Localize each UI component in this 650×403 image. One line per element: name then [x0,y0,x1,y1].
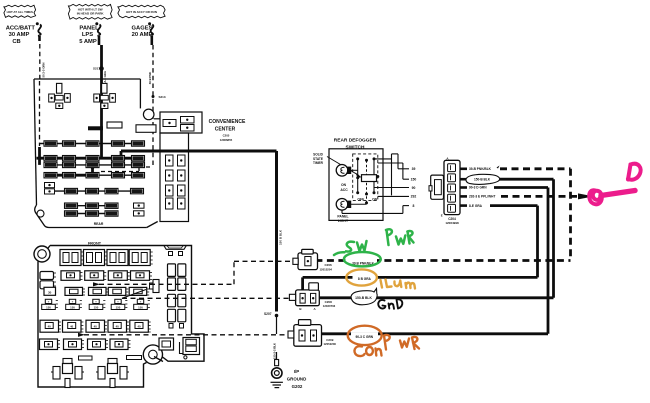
svg-text:REAR DEFOGGER: REAR DEFOGGER [334,138,377,144]
svg-text:+: + [117,300,119,304]
svg-text:LPS: LPS [82,32,93,38]
svg-text:+: + [140,300,142,304]
svg-text:150: 150 [116,306,121,310]
svg-text:150: 150 [138,306,143,310]
svg-text:LIGHT: LIGHT [338,219,349,223]
svg-text:S207: S207 [264,312,272,316]
svg-text:292-3 E PPL/WHT: 292-3 E PPL/WHT [469,195,495,199]
svg-text:12064998: 12064998 [445,221,459,225]
svg-text:ACC/BATT: ACC/BATT [6,26,36,32]
svg-text:150: 150 [94,306,99,310]
svg-text:40: 40 [94,324,98,328]
svg-text:G202: G202 [292,384,303,389]
svg-text:30 AMP: 30 AMP [9,32,30,38]
svg-text:39 B PNK: 39 B PNK [148,72,152,85]
svg-text:S217: S217 [93,67,100,71]
svg-text:8-E GRA: 8-E GRA [469,204,483,208]
svg-text:I/P: I/P [294,369,299,374]
svg-text:90-3 C GRN: 90-3 C GRN [356,335,374,339]
svg-text:20 AMP: 20 AMP [132,32,153,38]
svg-text:HOT AT ALL TIMES: HOT AT ALL TIMES [7,10,33,14]
svg-text:150-B BLK: 150-B BLK [474,178,491,182]
svg-text:+: + [72,300,74,304]
svg-text:292: 292 [411,195,417,199]
svg-text:REAR: REAR [94,222,104,226]
svg-text:8: 8 [413,204,415,208]
svg-text:OFF: OFF [357,198,364,202]
svg-text:CENTER: CENTER [215,127,236,133]
svg-text:ON: ON [341,183,347,187]
svg-text:90: 90 [412,186,416,190]
svg-text:12015204: 12015204 [320,267,333,271]
svg-text:30: 30 [48,290,52,294]
svg-text:GAGES: GAGES [132,26,153,32]
svg-text:CB: CB [12,39,20,45]
svg-text:150 B BLK: 150 B BLK [279,229,283,245]
svg-text:S213: S213 [159,95,166,99]
svg-text:90-3 D GRN: 90-3 D GRN [469,186,487,190]
svg-text:PANEL: PANEL [79,26,99,32]
svg-text:12020703: 12020703 [323,304,336,308]
svg-text:+: + [95,300,97,304]
svg-text:40: 40 [116,324,120,328]
svg-text:150: 150 [46,306,51,310]
svg-text:TIMER: TIMER [313,161,324,165]
svg-text:PANEL: PANEL [337,215,348,219]
svg-text:12052230: 12052230 [324,342,337,346]
svg-text:39-B PNK/BLK: 39-B PNK/BLK [469,167,492,171]
svg-text:50 2-3 ORN: 50 2-3 ORN [42,63,46,78]
svg-text:40: 40 [70,324,74,328]
svg-text:ON: ON [372,198,378,202]
svg-text:GROUND: GROUND [287,376,307,381]
svg-text:8 A-5 GRA: 8 A-5 GRA [103,71,107,85]
svg-text:40: 40 [137,324,141,328]
svg-text:150: 150 [411,178,417,182]
svg-text:+: + [48,300,50,304]
svg-text:CONVENIENCE: CONVENIENCE [209,119,246,125]
svg-text:5 AMP: 5 AMP [79,39,97,45]
svg-text:IN HEAD OR PARK: IN HEAD OR PARK [77,12,105,16]
svg-text:8 B GRA: 8 B GRA [358,277,372,281]
svg-text:ACC: ACC [340,188,348,192]
svg-text:FRONT: FRONT [88,242,102,246]
svg-text:40: 40 [48,324,52,328]
svg-text:E: E [441,214,443,218]
svg-text:12066855: 12066855 [220,138,233,142]
svg-text:SWITCH: SWITCH [346,144,365,150]
svg-text:150: 150 [70,306,75,310]
svg-text:HOT IN ACCY OR RUN: HOT IN ACCY OR RUN [126,10,157,14]
svg-text:150-B BLK: 150-B BLK [355,296,372,300]
svg-text:39: 39 [412,167,416,171]
